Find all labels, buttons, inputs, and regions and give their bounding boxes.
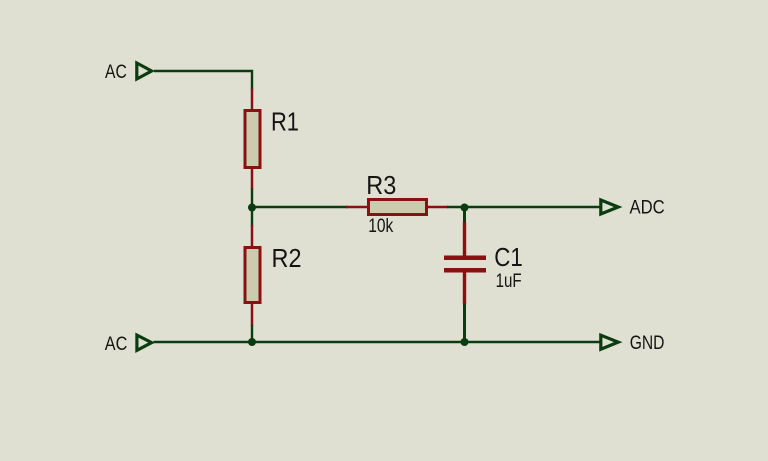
junction node B — [461, 204, 469, 212]
svg-text:GND: GND — [630, 333, 665, 354]
junction node A — [248, 204, 256, 212]
resistor R3 pin right — [427, 206, 448, 209]
wire: R3 to node B — [447, 206, 464, 208]
wire: R1 bottom to node A — [251, 189, 253, 208]
label R1 — [271, 107, 299, 137]
label 10k — [368, 216, 393, 237]
resistor R1 pin top — [251, 89, 254, 111]
svg-text:R3: R3 — [366, 170, 396, 200]
junction node C — [248, 338, 256, 346]
resistor R1 body — [245, 111, 260, 168]
terminal AC (top input) — [137, 63, 152, 79]
label GND — [630, 333, 665, 354]
resistor R1 pin bottom — [251, 168, 254, 190]
svg-text:AC: AC — [105, 62, 127, 83]
resistor R3 pin left — [346, 206, 368, 209]
capacitor C1 pin top — [463, 222, 466, 256]
wire: R2 to node C — [251, 325, 253, 342]
resistor R2 body — [245, 248, 260, 303]
resistor R3 body — [369, 200, 427, 215]
wire: node B to ADC terminal — [464, 206, 600, 208]
resistor R2 pin top — [251, 225, 254, 247]
svg-text:R2: R2 — [272, 243, 302, 273]
wire: node A to R3 — [252, 206, 348, 208]
terminal AC (bottom input) — [137, 335, 152, 350]
wire: node B down to C1 — [463, 207, 466, 224]
label AC (bottom) — [105, 334, 128, 355]
label R2 — [272, 243, 302, 273]
svg-text:10k: 10k — [368, 216, 393, 237]
wire: AC bottom to GND terminal — [154, 341, 600, 343]
label ADC — [630, 197, 665, 218]
terminal ADC — [601, 200, 618, 214]
label AC (top) — [105, 62, 127, 83]
svg-text:R1: R1 — [271, 107, 299, 137]
label R3 — [366, 170, 396, 200]
terminal GND — [601, 335, 618, 349]
wire: C1 to node D — [463, 304, 466, 343]
capacitor C1 pin bottom — [463, 272, 466, 305]
capacitor C1 bottom plate — [444, 268, 486, 273]
wire: node A down to R2 — [251, 207, 253, 227]
svg-text:ADC: ADC — [630, 197, 665, 218]
label 1uF — [496, 271, 522, 292]
label C1 — [494, 242, 523, 272]
resistor R2 pin bottom — [251, 303, 254, 326]
capacitor C1 top plate — [444, 256, 486, 261]
junction node D — [461, 338, 469, 346]
svg-text:AC: AC — [105, 334, 128, 355]
wire: AC terminal to R1 top — [154, 71, 252, 90]
svg-text:C1: C1 — [494, 242, 523, 272]
svg-text:1uF: 1uF — [496, 271, 522, 292]
